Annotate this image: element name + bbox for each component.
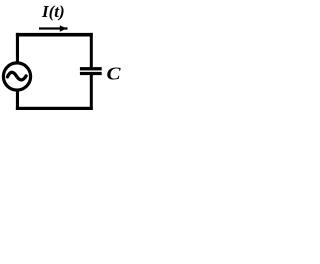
sine wave inside source [8,72,27,80]
current direction arrow [39,25,68,32]
svg-text:C: C [107,64,122,84]
wire: right upper (top to capacitor) [90,33,93,68]
wire: bottom [16,107,93,110]
capacitor C plates [80,67,102,70]
svg-text:I(t): I(t) [41,2,65,21]
wire: right lower (capacitor to bottom) [90,75,93,111]
wire: left lower (source to bottom) [16,90,19,110]
wire: left upper (source to top) [16,33,19,63]
wire: top [16,33,93,37]
AC source [3,63,30,90]
